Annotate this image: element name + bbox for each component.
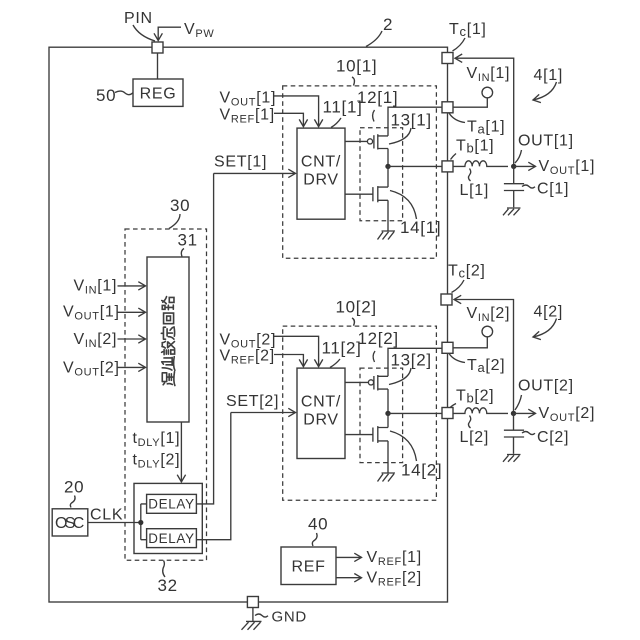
wire VREF[1] output bbox=[336, 556, 362, 558]
kanji 遅延設定回路 vertical bbox=[161, 297, 175, 386]
svg-text:CLK: CLK bbox=[90, 507, 123, 524]
wire feedback OUT1 to Tc[1] bbox=[455, 58, 514, 166]
svg-text:tDLY[2]: tDLY[2] bbox=[133, 452, 181, 471]
chip outline 2 bbox=[49, 47, 448, 602]
svg-text:14[2]: 14[2] bbox=[401, 461, 442, 480]
label 11[2] bbox=[322, 338, 362, 367]
label 20 bbox=[64, 478, 84, 508]
wire node to Tb[2] bbox=[388, 412, 442, 414]
svg-text:CNT/: CNT/ bbox=[301, 154, 341, 171]
reference REF 40 bbox=[281, 547, 336, 585]
svg-text:REG: REG bbox=[140, 85, 177, 102]
svg-text:31: 31 bbox=[178, 231, 198, 250]
dashed block 12[2] output stage bbox=[360, 368, 403, 463]
wire tDLY into delay block bbox=[180, 422, 182, 482]
svg-text:VOUT[1]: VOUT[1] bbox=[539, 158, 596, 177]
svg-text:SET[1]: SET[1] bbox=[214, 154, 267, 171]
svg-text:DELAY: DELAY bbox=[148, 497, 194, 512]
ground below C[2] bbox=[503, 455, 521, 462]
wire VREF[2] into CNT/DRV bbox=[274, 355, 303, 367]
source VIN[1] circle bbox=[482, 87, 493, 98]
label GND bbox=[255, 609, 307, 626]
label 10[1] bbox=[336, 56, 377, 85]
wire NMOS source to ground 2 bbox=[387, 441, 389, 473]
transistor 14[2] NMOS low-side bbox=[373, 426, 388, 443]
dashed block 10[2] bbox=[283, 326, 437, 500]
label 30 bbox=[169, 196, 190, 229]
svg-text:GND: GND bbox=[272, 609, 307, 626]
svg-text:OSC: OSC bbox=[55, 515, 85, 532]
wire gate low-side bbox=[345, 193, 373, 195]
label 10[2] bbox=[336, 298, 377, 326]
wire output arrow VOUT[1] bbox=[514, 165, 536, 167]
svg-text:Tc[2]: Tc[2] bbox=[448, 263, 486, 281]
dashed block 30/32 delay setting bbox=[125, 229, 207, 560]
wire source to node LX2 bbox=[387, 389, 389, 413]
svg-text:VIN[2]: VIN[2] bbox=[467, 305, 511, 324]
svg-text:VOUT[2]: VOUT[2] bbox=[539, 405, 596, 424]
node LX1 junction bbox=[385, 164, 390, 169]
svg-text:2: 2 bbox=[383, 15, 393, 34]
label PIN bbox=[124, 10, 155, 41]
node LX2 junction bbox=[385, 411, 390, 416]
svg-text:SET[2]: SET[2] bbox=[226, 393, 279, 410]
label 12[2] bbox=[358, 329, 399, 362]
svg-text:Tc[1]: Tc[1] bbox=[449, 21, 487, 39]
svg-text:Ta[2]: Ta[2] bbox=[467, 357, 505, 375]
terminal PIN bbox=[152, 42, 163, 53]
node OUT[2] junction bbox=[511, 411, 516, 416]
VPW supply wire bbox=[158, 27, 181, 40]
terminal Ta[2] bbox=[442, 342, 453, 353]
svg-text:DELAY: DELAY bbox=[148, 531, 194, 546]
label 13[1] bbox=[389, 111, 432, 144]
wire VOUT[2] into CNT/DRV bbox=[274, 336, 319, 366]
ground below 14[2] bbox=[378, 473, 396, 482]
svg-text:C[2]: C[2] bbox=[537, 429, 569, 446]
wire gate high-side bbox=[345, 140, 367, 142]
wire feedback OUT2 to Tc[2] bbox=[454, 300, 514, 414]
label 50 bbox=[96, 86, 133, 105]
inductor L[2] bbox=[453, 408, 508, 414]
svg-text:PIN: PIN bbox=[124, 10, 153, 27]
label 4[2] bbox=[533, 304, 563, 338]
svg-text:20: 20 bbox=[64, 478, 84, 497]
wire VIN to Ta[1] bbox=[453, 98, 487, 107]
wire VOUT[1] into CNT/DRV bbox=[274, 96, 319, 127]
oscillator OSC 20 bbox=[52, 509, 88, 536]
svg-text:CNT/: CNT/ bbox=[301, 394, 341, 411]
label OUT[1] bbox=[515, 132, 574, 163]
delay DELAY2 bbox=[147, 529, 197, 548]
terminal Tb[1] bbox=[442, 161, 453, 172]
wire source to node LX1 bbox=[387, 149, 389, 167]
label OUT[2] bbox=[515, 377, 574, 410]
label 11[1] bbox=[323, 97, 363, 127]
label 12[1] bbox=[357, 88, 398, 122]
inductor L[1] bbox=[453, 161, 508, 167]
wire SET[1] from delay to CNT/DRV bbox=[214, 172, 296, 174]
capacitor C[1] bbox=[504, 166, 524, 207]
controller CNT/DRV U11[2] bbox=[297, 368, 345, 458]
terminal Tb[2] bbox=[442, 408, 453, 419]
label Tb[1] bbox=[451, 138, 495, 160]
wire drain to Ta[1] bbox=[388, 107, 442, 136]
svg-text:DRV: DRV bbox=[303, 412, 339, 429]
svg-text:C[1]: C[1] bbox=[537, 181, 569, 198]
wire VREF[1] into CNT/DRV bbox=[274, 113, 303, 126]
wire VOUT[2] into 31 bbox=[118, 366, 146, 368]
svg-text:13[1]: 13[1] bbox=[391, 111, 432, 130]
wire VIN[2] into 31 bbox=[118, 338, 146, 340]
delay setting circuit 31 bbox=[147, 257, 189, 422]
label 13[2] bbox=[389, 350, 432, 384]
svg-text:4[2]: 4[2] bbox=[534, 304, 564, 321]
svg-text:13[2]: 13[2] bbox=[391, 350, 432, 369]
label 14[2] bbox=[390, 431, 442, 480]
svg-text:VREF[2]: VREF[2] bbox=[367, 570, 422, 589]
transistor 14[1] NMOS low-side bbox=[373, 186, 388, 202]
label Tc[1] bbox=[449, 21, 487, 51]
delay DELAY1 bbox=[147, 494, 197, 513]
svg-text:10[1]: 10[1] bbox=[336, 56, 377, 75]
label Ta[2] bbox=[449, 354, 505, 376]
label 4[1] bbox=[533, 67, 563, 100]
label L[1] bbox=[460, 169, 490, 200]
label C[2] bbox=[522, 429, 569, 446]
wire OSC clock bbox=[88, 504, 147, 540]
svg-text:11[2]: 11[2] bbox=[322, 338, 362, 357]
capacitor C[2] bbox=[504, 413, 524, 453]
label Tb[2] bbox=[451, 388, 495, 408]
svg-text:12[2]: 12[2] bbox=[358, 329, 399, 348]
label 32 bbox=[158, 561, 178, 596]
label 14[1] bbox=[390, 191, 441, 237]
ground below C[1] bbox=[503, 208, 521, 215]
svg-text:12[1]: 12[1] bbox=[357, 88, 398, 107]
svg-text:L[1]: L[1] bbox=[460, 182, 490, 199]
wire PIN to REG bbox=[157, 53, 159, 79]
svg-text:L[2]: L[2] bbox=[460, 429, 490, 446]
svg-text:VREF[1]: VREF[1] bbox=[367, 549, 422, 568]
svg-text:32: 32 bbox=[158, 576, 178, 595]
wire SET[2] from delay to CNT/DRV bbox=[231, 412, 296, 414]
wire node to NMOS drain 2 bbox=[387, 413, 389, 427]
svg-text:VIN[1]: VIN[1] bbox=[74, 278, 118, 297]
terminal Ta[1] bbox=[442, 102, 453, 113]
wire node to NMOS drain bbox=[387, 166, 389, 187]
transistor 13[2] PMOS high-side bbox=[368, 375, 388, 391]
wire gate high-side 2 bbox=[345, 381, 368, 383]
wire NMOS source to ground bbox=[387, 200, 389, 230]
dashed block 10[1] bbox=[283, 86, 437, 258]
dashed block 12[1] output stage bbox=[360, 128, 403, 221]
svg-text:30: 30 bbox=[170, 196, 190, 215]
svg-text:14[1]: 14[1] bbox=[400, 218, 441, 237]
svg-text:VIN[1]: VIN[1] bbox=[467, 65, 511, 84]
wire DELAY1 to SET[1] bbox=[196, 173, 213, 504]
svg-text:VREF[1]: VREF[1] bbox=[220, 106, 275, 125]
label C[1] bbox=[522, 181, 569, 198]
svg-text:DRV: DRV bbox=[303, 172, 339, 189]
label 40 bbox=[308, 515, 328, 547]
node OUT[1] junction bbox=[511, 164, 516, 169]
wire gate low-side 2 bbox=[345, 434, 373, 436]
wire VIN to Ta[2] bbox=[453, 337, 487, 348]
wire DELAY2 to SET[2] bbox=[196, 413, 230, 540]
label 2 bbox=[366, 15, 393, 47]
wire output arrow VOUT[2] bbox=[514, 412, 536, 414]
terminal Tc[2] bbox=[441, 294, 452, 305]
svg-text:OUT[1]: OUT[1] bbox=[518, 132, 574, 149]
wire VREF[2] output bbox=[336, 577, 362, 579]
ground GND symbol bbox=[242, 621, 262, 629]
svg-text:VPW: VPW bbox=[184, 21, 215, 40]
svg-text:10[2]: 10[2] bbox=[336, 298, 377, 317]
svg-text:Tb[1]: Tb[1] bbox=[456, 138, 494, 156]
svg-text:4[1]: 4[1] bbox=[534, 67, 564, 84]
label Tc[2] bbox=[448, 263, 486, 293]
svg-text:REF: REF bbox=[291, 558, 325, 575]
svg-text:40: 40 bbox=[308, 515, 328, 534]
svg-text:Ta[1]: Ta[1] bbox=[467, 119, 505, 137]
svg-text:Tb[2]: Tb[2] bbox=[456, 388, 494, 406]
svg-text:VOUT[1]: VOUT[1] bbox=[63, 304, 120, 323]
svg-text:50: 50 bbox=[96, 86, 116, 105]
wire GND stub bbox=[252, 608, 254, 621]
label 31 bbox=[178, 231, 198, 257]
svg-text:tDLY[1]: tDLY[1] bbox=[133, 430, 181, 449]
terminal GND bbox=[247, 597, 258, 608]
wire node to Tb[1] bbox=[388, 165, 442, 167]
source VIN[2] circle bbox=[482, 326, 493, 337]
svg-text:VIN[2]: VIN[2] bbox=[74, 331, 118, 350]
svg-text:VOUT[2]: VOUT[2] bbox=[63, 360, 120, 379]
wire VIN[1] into 31 bbox=[118, 285, 146, 287]
junction CLK bbox=[138, 520, 143, 525]
label L[2] bbox=[460, 416, 490, 447]
svg-text:OUT[2]: OUT[2] bbox=[518, 377, 574, 394]
transistor 13[1] PMOS high-side bbox=[367, 134, 388, 149]
wire VOUT[1] into 31 bbox=[118, 311, 146, 313]
regulator REG 50 bbox=[133, 79, 183, 106]
delay block box 32 bbox=[134, 483, 202, 553]
wire drain to Ta[2] bbox=[388, 348, 442, 376]
ground below 14[1] bbox=[378, 231, 396, 240]
terminal Tc[1] bbox=[442, 53, 453, 64]
label Ta[1] bbox=[449, 113, 505, 137]
controller CNT/DRV U11[1] bbox=[297, 128, 345, 219]
